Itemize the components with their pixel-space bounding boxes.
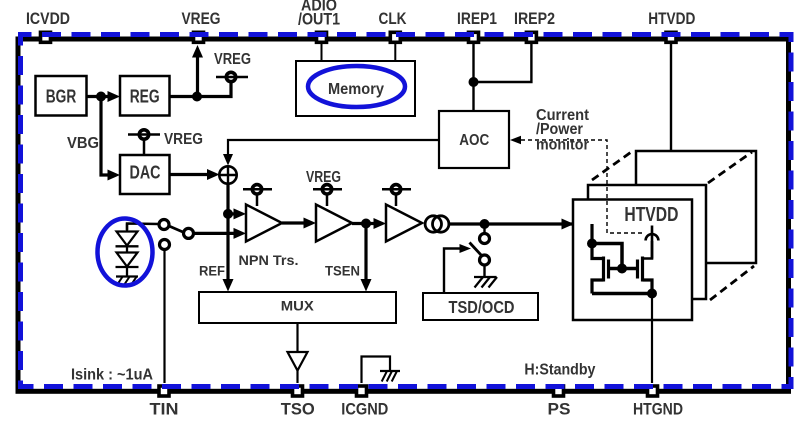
pin IREP1 — [457, 9, 497, 42]
svg-text:Memory: Memory — [328, 81, 384, 98]
dashed diagonal top-left — [592, 150, 634, 180]
wire to VREG pin — [192, 45, 203, 97]
pin HTVDD — [648, 9, 695, 42]
node output wire junction — [480, 219, 490, 229]
svg-text:PS: PS — [548, 400, 571, 419]
blue ellipse around diode stack — [98, 219, 153, 286]
svg-text:VREG: VREG — [306, 169, 341, 186]
wire TSEN to MUX — [361, 224, 372, 292]
wire TSD/OCD control arrow — [444, 244, 471, 293]
VREG bias terminal near REG — [216, 72, 248, 81]
svg-text:monitor: monitor — [536, 136, 589, 153]
block Memory — [296, 61, 415, 116]
svg-text:VBG: VBG — [67, 135, 99, 152]
output stage back box — [636, 151, 756, 263]
pin TIN — [150, 386, 179, 419]
op-amp A2 — [316, 205, 352, 242]
ground of diode stack — [116, 276, 138, 285]
pin VREG — [182, 9, 221, 42]
svg-text:HTVDD: HTVDD — [624, 204, 678, 226]
chip boundary blue dashed rect — [21, 35, 792, 387]
svg-text:TIN: TIN — [150, 400, 179, 419]
svg-text:REG: REG — [130, 87, 160, 107]
op-amp A1 — [246, 205, 282, 242]
pin IREP2 — [514, 9, 555, 42]
block DAC — [120, 155, 170, 194]
wire switch to TIN — [163, 250, 165, 383]
diode stack (2 series diodes) — [116, 224, 139, 278]
svg-text:IREP2: IREP2 — [514, 9, 555, 28]
svg-text:BGR: BGR — [46, 87, 77, 107]
node REG output junction — [192, 92, 202, 102]
wire gate node — [592, 244, 622, 269]
pin HTGND — [633, 386, 683, 419]
node amp input junction — [223, 209, 233, 219]
dashed monitor line to AOC — [510, 136, 645, 233]
svg-text:H:Standby: H:Standby — [524, 362, 595, 379]
wire switch to amp1 bottom input — [194, 228, 246, 239]
wire IREP1 to AOC — [472, 44, 474, 111]
wire BGR to REG — [86, 91, 120, 102]
svg-text:TSD/OCD: TSD/OCD — [449, 297, 515, 317]
node M1 drain — [587, 239, 597, 249]
pin ADIO/OUT1 — [298, 0, 340, 42]
svg-text:VREG: VREG — [182, 9, 221, 28]
block MUX — [199, 292, 396, 323]
output stage front box — [573, 200, 692, 321]
output buffer triangle — [288, 352, 308, 371]
current mirror symbol — [425, 216, 449, 232]
wire CLK to memory — [394, 44, 396, 61]
wire diode stack to switch — [127, 224, 159, 231]
wire mirror to output stage — [449, 219, 592, 230]
wire A1 to A2 — [282, 218, 316, 229]
bias terminal above A2 — [313, 185, 342, 206]
pin CLK — [379, 9, 408, 42]
pin ICVDD — [26, 9, 70, 42]
block AOC — [439, 111, 509, 168]
wire REF down to MUX — [223, 214, 234, 292]
pin ICGND — [341, 386, 388, 419]
ground of standby switch — [474, 277, 497, 288]
wire REG output to VREG terminal — [170, 83, 231, 97]
svg-text:ICGND: ICGND — [341, 400, 388, 419]
bias terminal above A1 — [243, 185, 272, 206]
svg-text:/OUT1: /OUT1 — [298, 10, 340, 29]
svg-text:HTGND: HTGND — [633, 400, 683, 419]
svg-text:REF: REF — [199, 264, 225, 279]
block REG — [120, 76, 170, 116]
svg-text:MUX: MUX — [281, 299, 314, 314]
svg-text:TSEN: TSEN — [325, 263, 360, 279]
wire VBG to DAC — [101, 97, 120, 181]
wire DAC to adder — [170, 169, 220, 180]
bias terminal above A3 — [382, 185, 411, 206]
dashed diagonal bottom-right — [710, 266, 754, 300]
wire ICGND to ground — [362, 357, 391, 384]
transistor M2 — [622, 241, 652, 294]
HTVDD supply arrow — [646, 226, 659, 259]
wire buffer to TSO — [296, 371, 298, 384]
wire adder down to junction — [226, 184, 229, 214]
wire MUX to buffer — [296, 323, 298, 352]
svg-text:CLK: CLK — [379, 9, 408, 28]
svg-text:Isink : ~1uA: Isink : ~1uA — [71, 367, 153, 384]
chip boundary black rect — [18, 39, 789, 391]
wire junction to amp1 top input — [228, 208, 246, 219]
input select switch — [159, 220, 194, 250]
svg-text:ICVDD: ICVDD — [26, 9, 70, 28]
wire A2 to A3 — [352, 218, 386, 229]
output stage middle box — [588, 185, 706, 299]
wire source rail — [592, 292, 652, 296]
standby switch — [470, 224, 490, 276]
node gate junction — [617, 264, 627, 274]
node output source junction — [647, 289, 657, 299]
node IREP junction — [469, 77, 479, 87]
wire AOC to adder — [223, 140, 439, 166]
wire ADIO to memory — [321, 44, 323, 61]
Current/Power monitor label — [536, 107, 589, 153]
svg-text:DAC: DAC — [130, 163, 161, 183]
svg-text:NPN Trs.: NPN Trs. — [239, 252, 299, 268]
svg-text:VREG: VREG — [214, 51, 251, 68]
block BGR — [36, 76, 87, 116]
wire to HTGND — [651, 294, 653, 384]
svg-text:HTVDD: HTVDD — [648, 9, 695, 28]
adder (summing node) — [219, 166, 236, 183]
svg-text:VREG: VREG — [164, 131, 203, 148]
wire IREP2 to AOC — [474, 44, 532, 82]
op-amp A3 — [386, 205, 422, 242]
VREG bias terminal above DAC — [128, 130, 160, 155]
dashed diagonal top-right — [708, 152, 752, 183]
wire HTVDD pin to output stage — [670, 44, 672, 151]
transistor M1 — [592, 244, 622, 294]
svg-text:TSO: TSO — [281, 400, 315, 419]
node TSEN junction — [361, 219, 371, 229]
ground near ICGND — [380, 371, 400, 382]
svg-text:AOC: AOC — [459, 132, 489, 149]
node BGR output junction — [96, 92, 106, 102]
pin PS — [548, 386, 571, 419]
pin TSO — [281, 386, 315, 419]
wire into MOSFET gates — [590, 224, 593, 244]
block TSD/OCD — [423, 293, 538, 320]
svg-text:IREP1: IREP1 — [457, 9, 497, 28]
